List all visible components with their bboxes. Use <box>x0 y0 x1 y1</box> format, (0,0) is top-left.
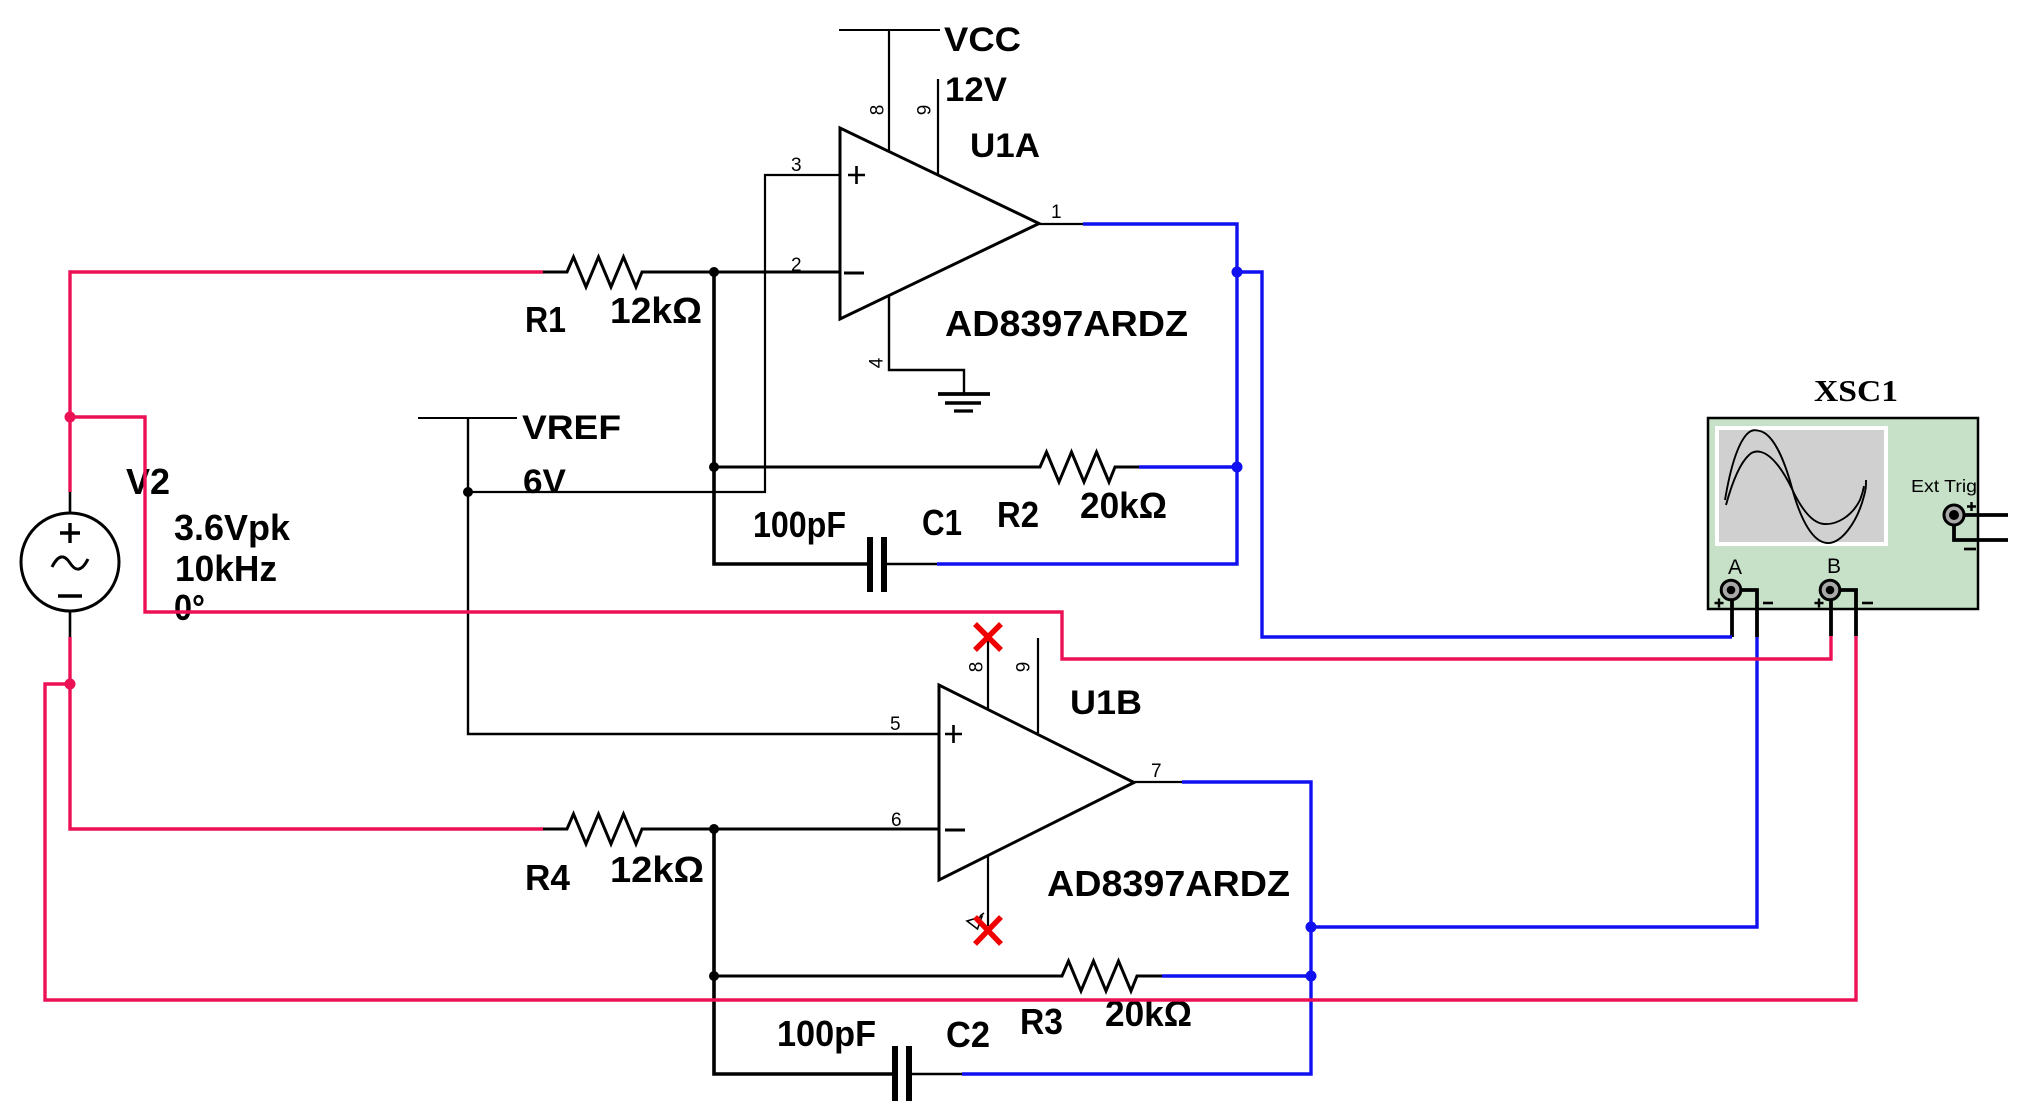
wire: U1B output node to scope A- (blue) <box>1311 637 1757 927</box>
svg-text:100pF: 100pF <box>777 1013 876 1054</box>
junction V2 minus branch (red) <box>65 679 76 690</box>
svg-text:10kHz: 10kHz <box>175 548 277 589</box>
junction at R2 left <box>709 462 719 472</box>
scope terminal post A <box>1721 580 1741 600</box>
scope trace waveform B <box>1726 451 1864 524</box>
svg-text:3.6Vpk: 3.6Vpk <box>174 507 291 548</box>
scope terminal post Ext Trig <box>1944 505 1964 525</box>
svg-text:VREF: VREF <box>522 409 621 447</box>
svg-text:V2: V2 <box>126 461 170 502</box>
resistor R4 <box>543 814 939 844</box>
op-amp U1B <box>939 685 1134 880</box>
wire: scope A- stub <box>1739 590 1757 637</box>
capacitor C1 <box>716 537 937 592</box>
U1A pin 9 wire <box>937 79 939 176</box>
wire: U1B output to C2 right (blue) <box>962 782 1311 1074</box>
junction R2 right node (blue) <box>1232 462 1243 473</box>
wire: U1A feedback vertical node pin2 to C1 <box>714 272 867 564</box>
ground <box>938 394 990 411</box>
svg-text:100pF: 100pF <box>753 504 846 545</box>
wire: U1A output node to scope A+ (blue) <box>1237 272 1732 637</box>
wire: U1B feedback vertical node pin6 to C2 <box>714 829 892 1074</box>
resistor R2 <box>714 452 1139 482</box>
wire: V2- branch to scope B- (red) <box>45 636 1856 1000</box>
wire: scope Ext Trig - stub <box>1954 520 2008 540</box>
scope Ext Trig minus mark <box>1964 548 1976 551</box>
svg-text:A: A <box>1728 556 1742 579</box>
U1A pin 1 stub <box>1039 223 1083 225</box>
svg-text:AD8397ARDZ: AD8397ARDZ <box>1047 863 1290 904</box>
U1B pin 4 no-connect X <box>975 917 1001 944</box>
wire: VREF rail down to U1B pin5 <box>468 418 939 734</box>
svg-text:VCC: VCC <box>944 21 1021 59</box>
scope Ext Trig plus mark <box>1967 502 1976 511</box>
VREF power rail <box>418 417 517 419</box>
svg-text:R1: R1 <box>525 299 566 340</box>
svg-text:5: 5 <box>890 714 901 735</box>
wire: scope B+ stub <box>1829 597 1833 636</box>
svg-text:8: 8 <box>967 662 988 673</box>
scope trace waveform A <box>1725 430 1866 543</box>
wire: U1A pin3 to VREF <box>468 175 840 492</box>
wire: V2+ branch to scope B+ (red) <box>70 417 1831 659</box>
svg-text:R3: R3 <box>1020 1001 1063 1042</box>
junction at VREF node <box>463 487 473 497</box>
wire: V2- to R4 (red) <box>70 637 543 829</box>
svg-text:XSC1: XSC1 <box>1814 373 1898 408</box>
wire: scope A+ stub <box>1730 597 1734 637</box>
VCC power rail <box>839 29 940 31</box>
scope B plus mark <box>1815 599 1824 608</box>
junction U1B output to A- (blue) <box>1306 922 1317 933</box>
U1A pin 4 wire <box>889 296 964 394</box>
U1A pin 8 wire <box>888 30 890 152</box>
svg-text:R2: R2 <box>997 494 1039 535</box>
op-amp U1A <box>840 128 1039 319</box>
scope A minus mark <box>1763 602 1773 605</box>
svg-text:12kΩ: 12kΩ <box>610 849 704 890</box>
wire: scope B- stub <box>1839 590 1856 636</box>
resistor R1 <box>543 257 840 287</box>
svg-text:20kΩ: 20kΩ <box>1080 485 1167 526</box>
AC source V2 <box>21 492 119 637</box>
svg-text:7: 7 <box>1151 761 1162 782</box>
svg-text:C1: C1 <box>922 502 962 543</box>
wire: U1A output to C1 right (blue) <box>937 224 1237 564</box>
junction U1A output node (blue) <box>1232 267 1243 278</box>
U1B pin 8 wire <box>987 641 989 710</box>
svg-text:C2: C2 <box>946 1014 990 1055</box>
wire: R2 right lead to output node (blue) <box>1139 465 1237 468</box>
U1B pin 4 wire <box>987 855 989 926</box>
svg-text:0°: 0° <box>174 587 205 628</box>
wire: scope Ext Trig + stub <box>1954 513 2008 517</box>
svg-text:12V: 12V <box>945 71 1007 109</box>
U1B pin 8 no-connect X <box>975 624 1001 650</box>
svg-text:Ext Trig: Ext Trig <box>1911 476 1977 496</box>
svg-text:4: 4 <box>867 357 888 368</box>
svg-text:R4: R4 <box>525 857 570 898</box>
svg-text:12kΩ: 12kΩ <box>610 290 702 331</box>
junction V2 plus branch (red) <box>65 412 76 423</box>
U1B pin number 4 and cursor arrow <box>967 913 984 929</box>
resistor R3 <box>714 961 1162 991</box>
svg-text:U1A: U1A <box>970 127 1040 165</box>
svg-text:1: 1 <box>1051 202 1062 223</box>
wire: R3 right lead to U1B output node (blue) <box>1162 974 1311 977</box>
wire: V2+ to R1 (red) <box>70 272 543 492</box>
U1B pin 7 stub <box>1134 781 1182 783</box>
svg-text:9: 9 <box>915 105 936 116</box>
U1B pin 9 wire <box>1037 638 1039 733</box>
scope A plus mark <box>1715 599 1724 608</box>
junction at R3 left <box>709 971 719 981</box>
junction at R4 / U1B pin6 <box>709 824 719 834</box>
scope B minus mark <box>1862 602 1873 605</box>
scope terminal post B <box>1820 580 1840 600</box>
svg-text:3: 3 <box>791 155 802 176</box>
oscilloscope XSC1 body <box>1708 418 1978 609</box>
svg-text:B: B <box>1827 555 1841 578</box>
junction at R1 / U1A pin2 <box>709 267 719 277</box>
svg-text:6V: 6V <box>523 463 566 501</box>
junction R3 right node (blue) <box>1306 971 1317 982</box>
svg-text:8: 8 <box>868 105 889 116</box>
svg-text:AD8397ARDZ: AD8397ARDZ <box>945 303 1188 344</box>
svg-text:U1B: U1B <box>1070 684 1142 722</box>
capacitor C2 <box>714 1046 962 1101</box>
svg-text:9: 9 <box>1014 662 1035 673</box>
